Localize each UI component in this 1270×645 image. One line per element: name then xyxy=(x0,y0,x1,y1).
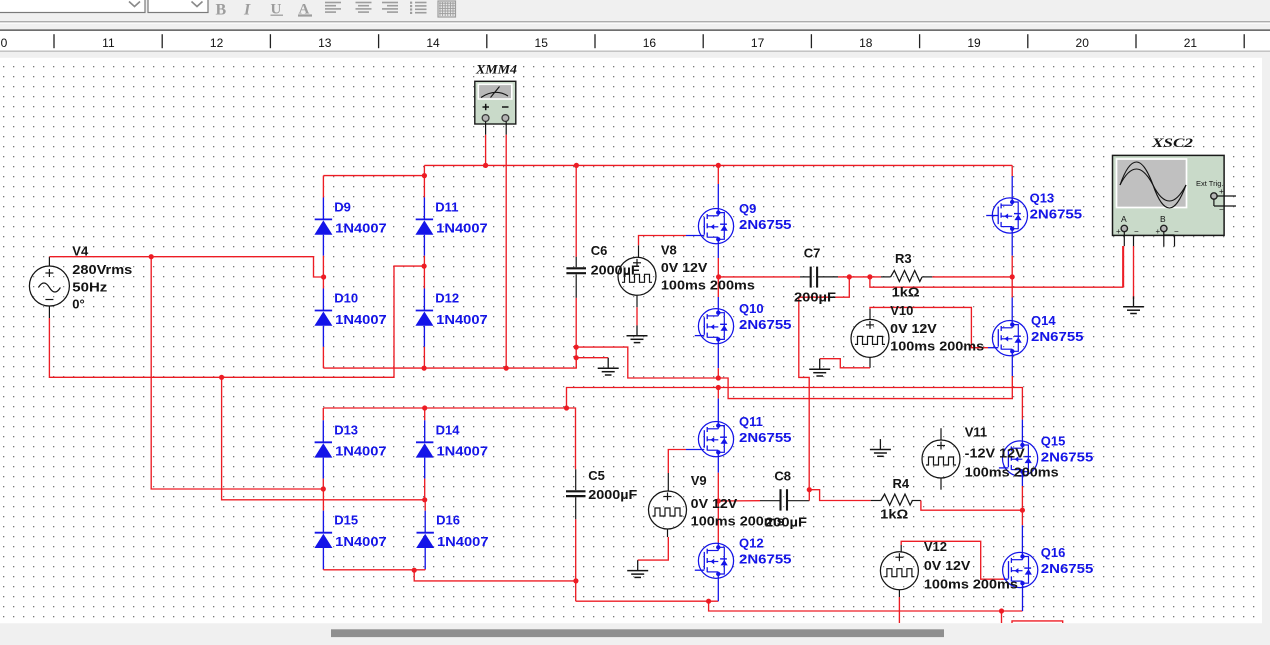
svg-text:V4: V4 xyxy=(72,244,89,259)
ground near C6 xyxy=(598,358,619,375)
mosfet Q14 xyxy=(992,313,1083,356)
wire scope A lead xyxy=(1123,232,1126,288)
wire V11 bottom stub xyxy=(940,478,942,490)
svg-text:D11: D11 xyxy=(435,199,458,214)
mosfet Q12 xyxy=(695,536,792,579)
node C5 bottom xyxy=(573,578,578,583)
node bridge2 rail tap xyxy=(564,405,569,410)
svg-text:B: B xyxy=(1160,214,1166,224)
wire Q16 source lead xyxy=(1022,583,1024,611)
toolbar underline button xyxy=(271,2,284,18)
node V4- branch xyxy=(219,375,224,380)
toolbar bottom edge xyxy=(0,22,1270,23)
svg-text:100ms 200ms: 100ms 200ms xyxy=(924,577,1018,592)
wire top rail xyxy=(424,164,1012,166)
svg-text:16: 16 xyxy=(643,36,657,50)
svg-text:2N6755: 2N6755 xyxy=(739,217,792,232)
svg-text:C6: C6 xyxy=(591,243,608,258)
label C5 xyxy=(588,468,637,502)
wire V8+ to Q9 gate xyxy=(639,236,705,258)
svg-text:100ms 200ms: 100ms 200ms xyxy=(965,465,1059,480)
wire V9+ to Q11 gate xyxy=(668,450,704,491)
svg-text:0V 12V: 0V 12V xyxy=(691,496,738,511)
svg-text:V8: V8 xyxy=(661,243,677,258)
wire mid2 to C8 xyxy=(718,500,780,502)
svg-text:V12: V12 xyxy=(924,539,947,554)
svg-text:D9: D9 xyxy=(334,199,351,214)
svg-text:C5: C5 xyxy=(588,468,605,483)
wire Q14 source lead xyxy=(1011,351,1013,376)
svg-text:XSC2: XSC2 xyxy=(1151,136,1193,150)
wire to scope A xyxy=(870,246,1123,287)
label V10 xyxy=(890,303,984,354)
pulse source V8 xyxy=(618,257,656,295)
svg-text:Q16: Q16 xyxy=(1041,545,1066,560)
node C8 right xyxy=(807,487,812,492)
label XMM4 xyxy=(475,63,517,77)
pulse source V11 xyxy=(922,440,960,478)
svg-text:18: 18 xyxy=(859,36,873,50)
svg-text:1N4007: 1N4007 xyxy=(335,444,387,459)
wire branch to D14/D16 node xyxy=(222,377,425,500)
wire C6- to Q10 source xyxy=(576,347,718,378)
svg-text:1N4007: 1N4007 xyxy=(436,221,488,236)
mosfet Q13 xyxy=(986,190,1082,233)
ruler tick marks xyxy=(54,34,1244,48)
svg-text:+: + xyxy=(1219,187,1224,196)
wire Q10source to Q14 source xyxy=(718,376,1012,399)
svg-text:1kΩ: 1kΩ xyxy=(880,507,908,522)
node Q11 drain tap xyxy=(716,385,721,390)
svg-text:-12V 12V: -12V 12V xyxy=(965,446,1025,461)
mosfet Q15 xyxy=(999,433,1093,476)
svg-text:2N6755: 2N6755 xyxy=(1030,206,1083,221)
wire rail2 link xyxy=(567,388,1023,420)
svg-text:200µF: 200µF xyxy=(794,290,836,305)
svg-text:Q14: Q14 xyxy=(1031,313,1056,328)
AC source V4 xyxy=(29,257,69,318)
node D12 bottom xyxy=(422,366,427,371)
toolbar align-right button xyxy=(382,3,398,13)
mosfet Q10 xyxy=(695,301,792,344)
mosfet Q16 xyxy=(1003,545,1094,588)
label C8 xyxy=(765,469,807,530)
svg-text:0: 0 xyxy=(1,36,8,50)
wire Q12 source lead xyxy=(717,574,719,601)
wire Q15 drain lead xyxy=(1021,420,1023,445)
svg-text:2000µF: 2000µF xyxy=(588,487,637,502)
wire V4+ to D9/D10 node xyxy=(49,257,323,277)
label V11 xyxy=(965,425,1059,480)
wire bottom rail xyxy=(576,600,719,602)
svg-text:+: + xyxy=(1116,227,1121,236)
svg-text:13: 13 xyxy=(318,36,332,50)
ground near V10 xyxy=(809,359,830,376)
svg-text:19: 19 xyxy=(967,36,981,50)
pulse source V10 xyxy=(851,319,889,357)
floating ground near R4 xyxy=(870,439,891,456)
wire cut U-loop xyxy=(1012,621,1063,623)
diode D10 xyxy=(314,277,386,368)
wire mid1 to C7 xyxy=(719,276,811,278)
wire V12- cut stub xyxy=(898,590,900,623)
svg-text:2N6755: 2N6755 xyxy=(1041,449,1094,464)
diode D15 xyxy=(314,489,386,570)
svg-text:1kΩ: 1kΩ xyxy=(892,285,920,300)
node bridge1 top xyxy=(422,173,427,178)
wire C7 to R3 xyxy=(838,276,891,278)
svg-text:D13: D13 xyxy=(334,422,358,437)
label scope B xyxy=(1160,214,1166,224)
wire Q9 source to Q10 drain xyxy=(717,239,719,312)
node V12 area branch xyxy=(999,608,1004,613)
svg-text:V11: V11 xyxy=(965,425,987,440)
wire down to C8 net xyxy=(799,277,850,490)
svg-text:20: 20 xyxy=(1076,36,1090,50)
capacitor C7 xyxy=(811,267,838,288)
svg-text:Q9: Q9 xyxy=(739,201,756,216)
label C6 xyxy=(591,243,640,278)
label R3 xyxy=(892,251,920,300)
wire scope ground lead xyxy=(1133,235,1135,299)
horizontal scrollbar xyxy=(0,623,1270,645)
ruler band xyxy=(0,29,1270,52)
wire V9- to ground xyxy=(638,529,669,560)
mosfet Q11 xyxy=(698,414,791,457)
label V9 xyxy=(691,473,785,529)
toolbar font-name combobox xyxy=(0,0,1270,29)
wire V11 top stub xyxy=(940,428,942,440)
svg-text:Ext Trig.: Ext Trig. xyxy=(1196,179,1224,188)
node Q10 source xyxy=(716,375,721,380)
svg-text:1N4007: 1N4007 xyxy=(436,312,488,327)
label XSC2 xyxy=(1151,136,1193,150)
svg-text:0V 12V: 0V 12V xyxy=(890,321,937,336)
svg-text:D12: D12 xyxy=(435,291,459,306)
label Ext Trig xyxy=(1196,179,1224,188)
wire to lower right rail xyxy=(709,601,1023,611)
wire ext-trig stubs xyxy=(1214,196,1236,206)
node C6 bottom b xyxy=(574,355,579,360)
svg-text:R4: R4 xyxy=(893,476,910,491)
node C7-R3 b xyxy=(867,274,872,279)
label V4 xyxy=(72,244,132,312)
svg-text:XMM4: XMM4 xyxy=(475,63,517,77)
toolbar align-center button xyxy=(356,3,372,13)
svg-text:V10: V10 xyxy=(890,303,913,318)
toolbar bold button xyxy=(216,2,227,19)
multimeter XMM4 xyxy=(475,81,516,124)
wire XMM4 plus lead xyxy=(485,122,487,166)
node bridge2 bottom xyxy=(412,568,417,573)
toolbar list button xyxy=(410,2,427,14)
toolbar italic button xyxy=(241,2,252,19)
svg-text:100ms 200ms: 100ms 200ms xyxy=(890,339,984,354)
vertical scrollbar strip xyxy=(1262,58,1270,624)
wire C6 ground stub xyxy=(576,357,608,359)
ground below V9 xyxy=(627,560,648,577)
node R4 right xyxy=(1020,508,1025,513)
label R4 xyxy=(880,476,910,522)
pulse source V12 xyxy=(880,552,918,590)
svg-text:1N4007: 1N4007 xyxy=(335,221,387,236)
svg-text:17: 17 xyxy=(751,36,765,50)
svg-text:Q11: Q11 xyxy=(739,414,763,429)
wire V12+ to Q16 gate xyxy=(901,541,1008,579)
svg-text:100ms 200ms: 100ms 200ms xyxy=(661,278,755,293)
svg-text:Q13: Q13 xyxy=(1030,190,1055,205)
svg-text:D15: D15 xyxy=(334,513,358,528)
svg-text:2N6755: 2N6755 xyxy=(1031,329,1084,344)
node C7-R3 a xyxy=(847,274,852,279)
diode D14 xyxy=(416,408,488,500)
pulse source V9 xyxy=(649,491,687,529)
capacitor C6 xyxy=(566,165,586,368)
wire bridge2 top rail xyxy=(323,408,575,469)
svg-text:2N6755: 2N6755 xyxy=(1041,561,1094,576)
wire cut stub down xyxy=(1001,611,1003,623)
diode D12 xyxy=(415,266,487,368)
label V12 xyxy=(924,539,1018,592)
node XMM4- tap xyxy=(504,366,509,371)
wire V10- to ground xyxy=(820,357,870,367)
svg-text:15: 15 xyxy=(535,36,549,50)
label V8 xyxy=(661,243,755,293)
toolbar align-left button xyxy=(325,3,341,13)
svg-text:2N6755: 2N6755 xyxy=(739,430,792,445)
svg-text:Q15: Q15 xyxy=(1041,433,1066,448)
label scope A xyxy=(1121,214,1127,224)
svg-text:11: 11 xyxy=(102,36,115,50)
node XMM4+ on rail xyxy=(483,163,488,168)
svg-text:R3: R3 xyxy=(895,251,912,266)
wire bridge2 bottom to C5 xyxy=(414,570,576,581)
svg-text:1N4007: 1N4007 xyxy=(437,444,489,459)
svg-text:I: I xyxy=(243,2,251,19)
toolbar font-size combobox xyxy=(148,0,208,13)
wire Q10 source lead xyxy=(717,339,719,378)
node C6 top xyxy=(574,163,579,168)
scope terminal marks xyxy=(1116,187,1224,236)
resistor R4 xyxy=(881,494,921,505)
svg-text:V9: V9 xyxy=(691,473,707,488)
toolbar insert-object button xyxy=(438,1,456,17)
capacitor C5 xyxy=(566,469,586,601)
diode D16 xyxy=(416,500,488,570)
svg-text:0°: 0° xyxy=(72,297,84,312)
svg-text:1N4007: 1N4007 xyxy=(437,534,489,549)
wire Q11 drain lead xyxy=(717,388,719,426)
wire bridge1 bottom rail xyxy=(323,358,576,368)
wire C8 jog to R4 xyxy=(809,490,881,501)
node D9/D10 xyxy=(321,274,326,279)
capacitor C8 xyxy=(781,489,810,510)
mosfet Q9 xyxy=(698,201,791,244)
svg-text:2N6755: 2N6755 xyxy=(739,317,792,332)
wire XMM4 minus lead xyxy=(505,122,507,369)
svg-text:−: − xyxy=(1174,227,1179,236)
svg-text:D16: D16 xyxy=(436,513,460,528)
ground below V8 xyxy=(627,325,648,342)
svg-text:50Hz: 50Hz xyxy=(72,280,108,295)
svg-text:14: 14 xyxy=(426,36,440,50)
wire bridge2 bottom rail xyxy=(323,569,425,571)
wire Q15 source to Q16 drain xyxy=(1021,472,1023,557)
svg-text:Q10: Q10 xyxy=(739,301,764,316)
svg-text:0V 12V: 0V 12V xyxy=(661,260,708,275)
svg-text:12: 12 xyxy=(210,36,224,50)
svg-text:−: − xyxy=(1134,227,1139,236)
node V4+ branch xyxy=(149,254,154,259)
ground below scope xyxy=(1123,296,1144,313)
svg-text:2000µF: 2000µF xyxy=(591,263,640,278)
node R3 right xyxy=(1010,274,1015,279)
toolbar color button xyxy=(298,2,312,18)
node half-bridge1 mid xyxy=(716,274,721,279)
svg-text:C7: C7 xyxy=(804,246,821,261)
wire Q9 drain lead xyxy=(717,165,719,212)
wire branch to D13/D15 node xyxy=(151,257,323,489)
label C7 xyxy=(794,246,836,305)
svg-text:1N4007: 1N4007 xyxy=(335,312,387,327)
node D11/D12 xyxy=(422,264,427,269)
diode D11 xyxy=(415,176,487,267)
svg-text:A: A xyxy=(1121,214,1127,224)
wire scope B stubs xyxy=(1164,232,1175,247)
node D13/D15 xyxy=(321,486,326,491)
svg-text:0V 12V: 0V 12V xyxy=(924,558,971,573)
diode D9 xyxy=(314,198,386,278)
resistor R3 xyxy=(891,271,1013,282)
svg-text:21: 21 xyxy=(1184,36,1198,50)
node half-bridge2 mid xyxy=(716,498,721,503)
svg-text:2N6755: 2N6755 xyxy=(739,552,792,567)
svg-text:D10: D10 xyxy=(334,291,358,306)
wire R4 to Q15/Q16 mid xyxy=(921,501,1023,511)
svg-text:D14: D14 xyxy=(436,422,461,437)
node D14/D16 xyxy=(422,497,427,502)
wire Q13 source to Q14 drain xyxy=(1011,229,1013,325)
svg-text:+: + xyxy=(1156,227,1161,236)
wire Q11 source to Q12 drain xyxy=(717,452,719,547)
node Q9 drain tap xyxy=(716,163,721,168)
svg-text:B: B xyxy=(216,2,227,19)
svg-text:Q12: Q12 xyxy=(739,536,764,551)
oscilloscope XSC2 xyxy=(1113,155,1225,235)
wire bridge1 top link xyxy=(323,165,424,197)
wire Q13 drain lead xyxy=(1011,165,1013,202)
wire V10+ to Q14 gate xyxy=(870,307,998,347)
ruler numbers xyxy=(1,36,1198,50)
node Q12 source branch xyxy=(706,599,711,604)
node D14 top xyxy=(422,405,427,410)
svg-text:280Vrms: 280Vrms xyxy=(72,262,132,277)
svg-text:1N4007: 1N4007 xyxy=(335,534,387,549)
svg-text:C8: C8 xyxy=(774,469,791,484)
wire V4- to D11/D12 node xyxy=(49,266,424,377)
node C6 bottom a xyxy=(574,345,579,350)
svg-text:200µF: 200µF xyxy=(765,515,807,530)
wire V8- to ground xyxy=(636,296,638,326)
diode D13 xyxy=(314,408,386,489)
